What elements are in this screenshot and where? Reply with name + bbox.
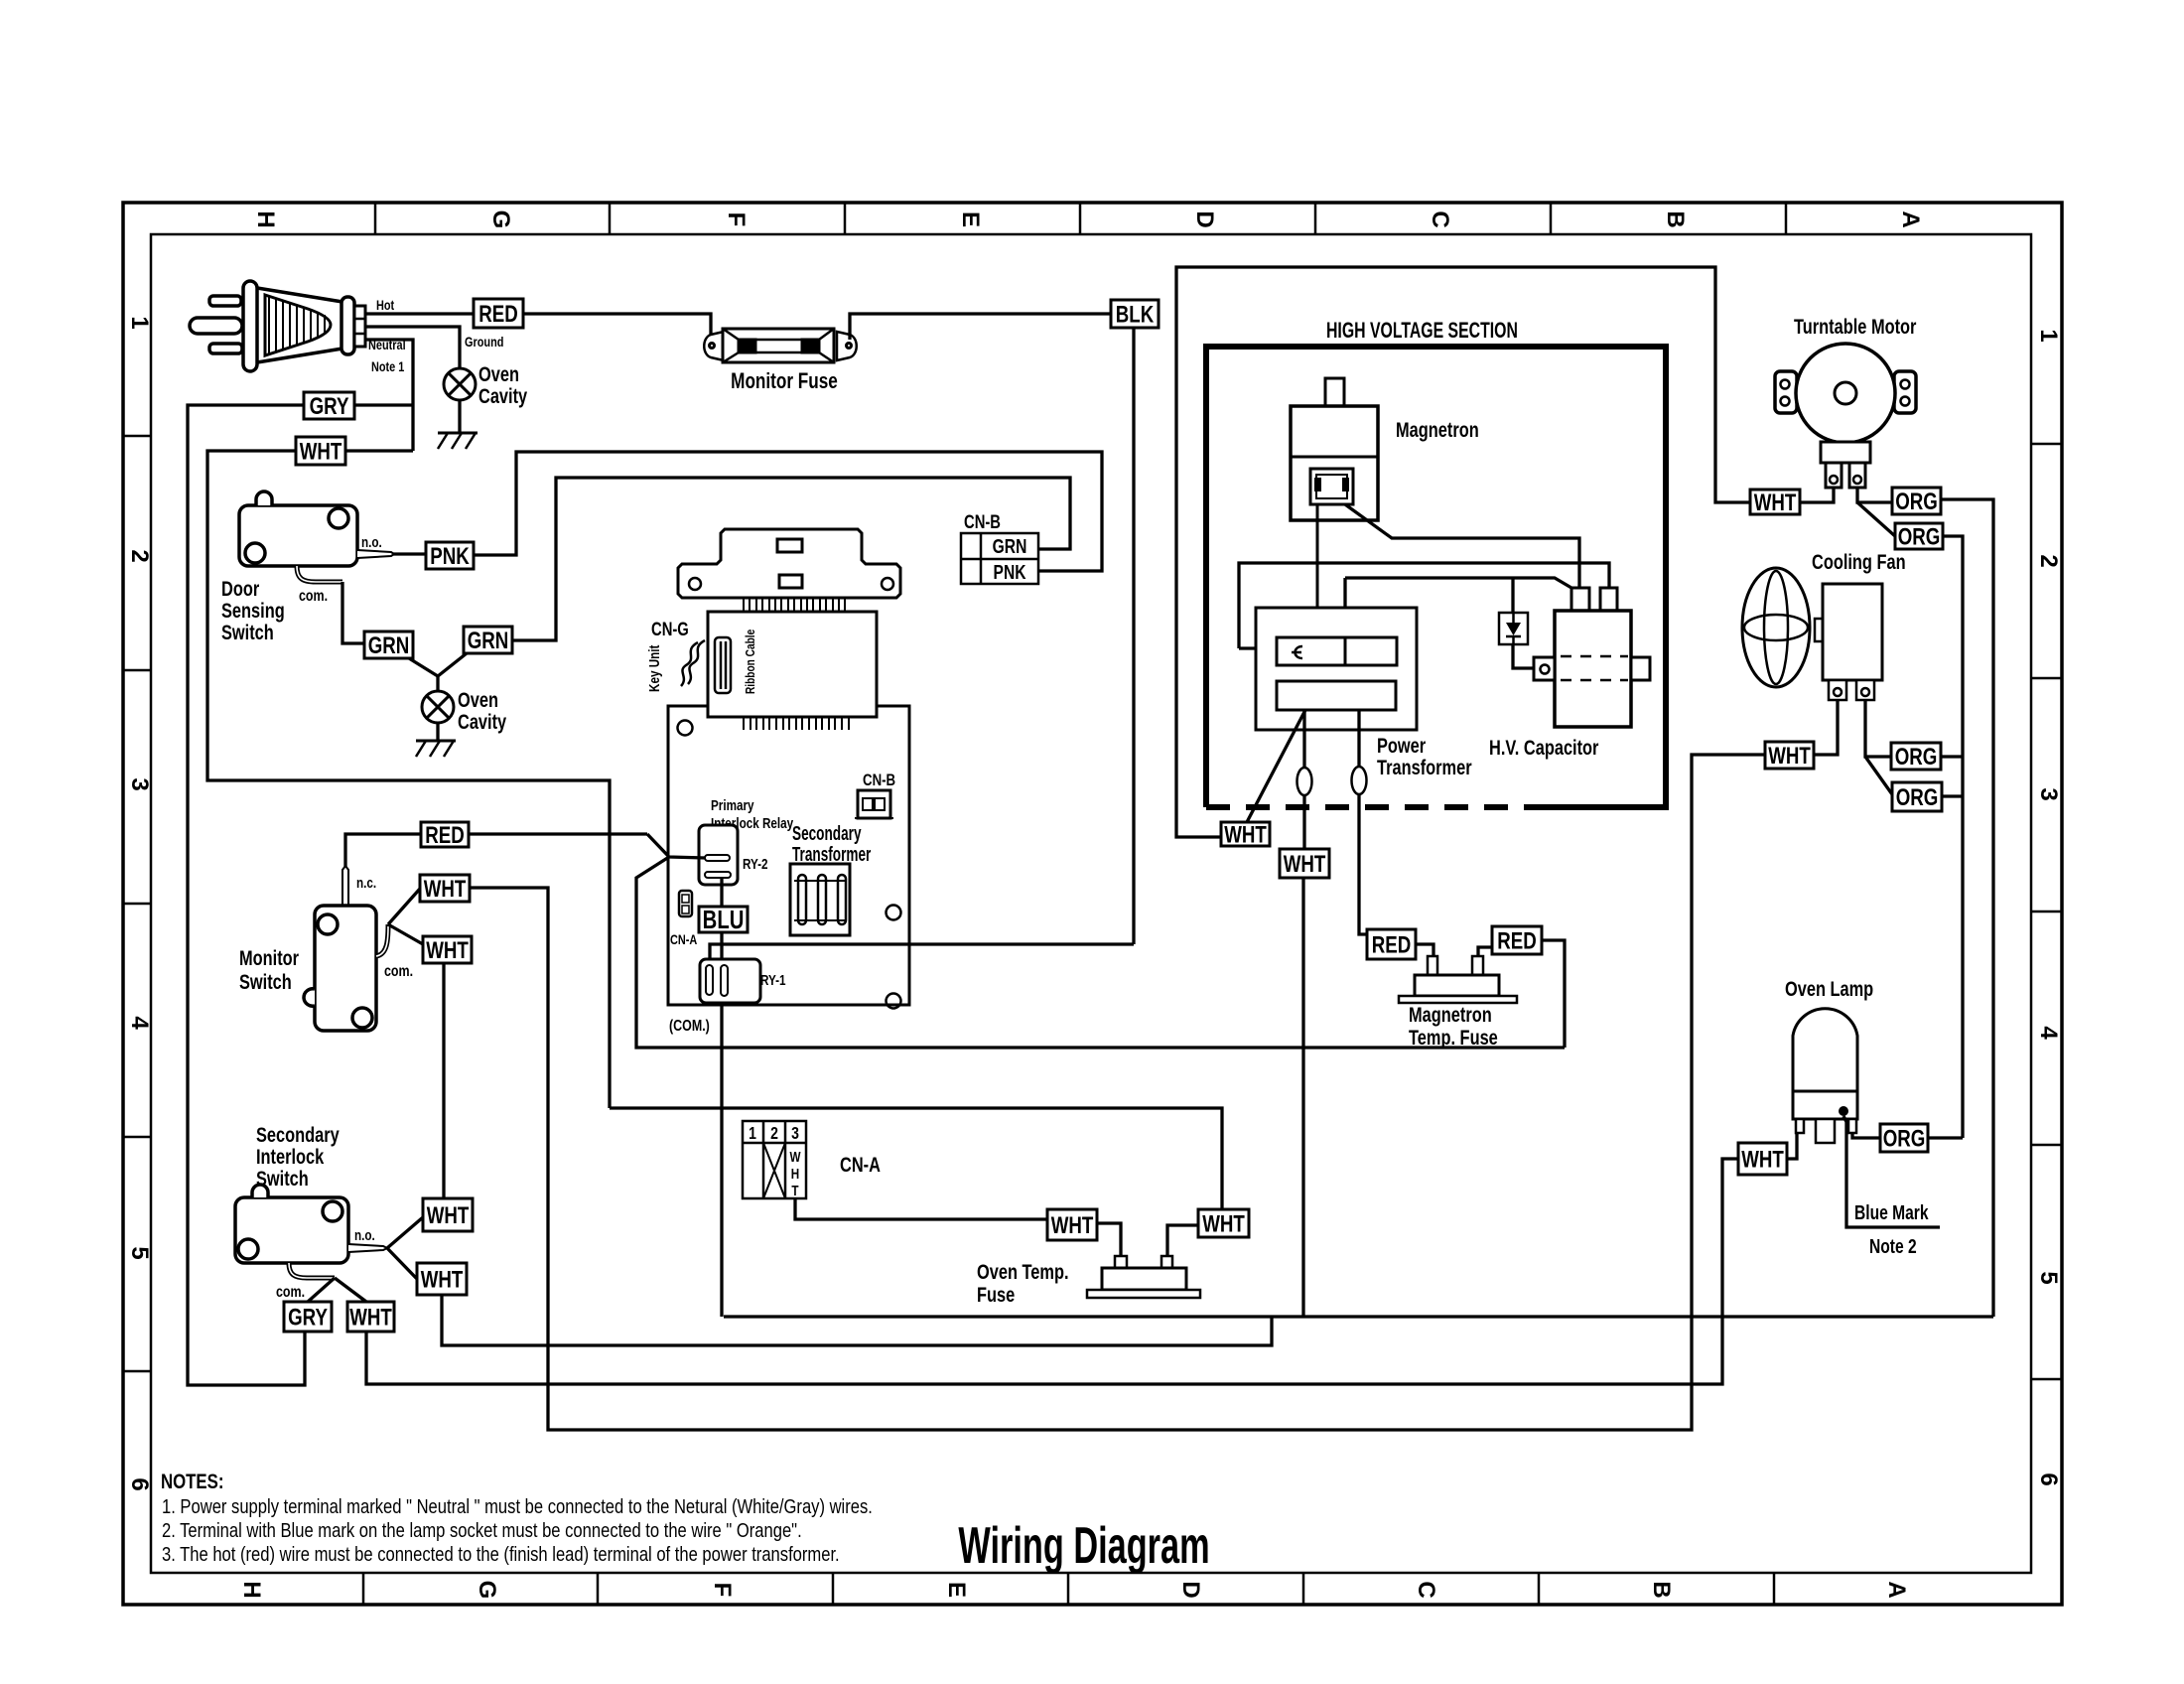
svg-text:WHT: WHT <box>349 1304 392 1331</box>
color label WHT (oven temp fuse left) <box>1047 1209 1097 1240</box>
svg-text:H: H <box>252 210 279 227</box>
svg-text:5: 5 <box>2035 1271 2062 1284</box>
turntable motor <box>1775 344 1916 488</box>
wire lamp 2 to ground <box>436 723 439 741</box>
svg-text:RED: RED <box>1497 927 1537 954</box>
svg-text:RY-1: RY-1 <box>760 972 786 989</box>
svg-text:Oven: Oven <box>478 362 519 385</box>
color label GRN (right) <box>464 627 512 653</box>
svg-text:3. The hot (red) wire must be: 3. The hot (red) wire must be connected … <box>162 1543 840 1566</box>
wire n.o. to WHT upper <box>387 1217 423 1248</box>
wire ORG 3 to bus <box>1941 755 1963 758</box>
svg-text:ORG: ORG <box>1898 523 1941 550</box>
svg-text:CN-A: CN-A <box>840 1153 881 1176</box>
wire BLU down to bus <box>720 932 723 1317</box>
wire motor to ORG 2 diagonal <box>1857 502 1895 536</box>
svg-text:G: G <box>474 1581 500 1600</box>
wire WHT bus down and right <box>207 451 610 1108</box>
wire Y to oven cavity lamp 2 <box>436 676 439 691</box>
wire n.o. to WHT lower <box>387 1248 417 1279</box>
connector pins top comb <box>744 598 845 612</box>
high voltage section box <box>1206 347 1666 807</box>
color label WHT (interlock n.o. upper) <box>423 1198 473 1231</box>
svg-text:1. Power supply terminal mark: 1. Power supply terminal marked " Neutra… <box>162 1495 873 1518</box>
wire com to WHT a <box>388 889 420 924</box>
svg-text:HIGH VOLTAGE SECTION: HIGH VOLTAGE SECTION <box>1326 320 1518 344</box>
wire transformer to WHT diagonal <box>1247 710 1305 822</box>
svg-text:1: 1 <box>126 316 153 329</box>
oven temp fuse <box>1087 1256 1200 1298</box>
wire fuse to RED <box>1478 947 1492 956</box>
svg-text:3: 3 <box>791 1123 799 1143</box>
monitor fuse <box>704 329 857 362</box>
svg-text:com.: com. <box>299 588 328 606</box>
ground symbol 2 <box>416 741 456 757</box>
svg-text:6: 6 <box>2035 1473 2062 1485</box>
svg-text:com.: com. <box>276 1284 305 1302</box>
wire RED to fuse <box>1416 944 1433 956</box>
svg-text:n.c.: n.c. <box>356 875 376 892</box>
svg-text:WHT: WHT <box>300 438 342 465</box>
door switch com lead <box>297 566 342 582</box>
svg-text:BLU: BLU <box>703 906 745 934</box>
svg-text:Secondary: Secondary <box>792 822 862 844</box>
svg-text:GRY: GRY <box>310 393 349 420</box>
svg-text:Interlock: Interlock <box>256 1145 325 1168</box>
svg-text:F: F <box>723 212 750 227</box>
svg-text:WHT: WHT <box>1768 743 1811 770</box>
wire motor to ORG 1 <box>1857 488 1892 502</box>
svg-text:WHT: WHT <box>1754 490 1797 516</box>
svg-text:Oven: Oven <box>458 688 498 711</box>
color label RED (monitor switch) <box>421 822 469 849</box>
color label WHT (transformer secondary) <box>1280 849 1329 878</box>
wire monitor fuse to BLK <box>850 314 1111 340</box>
connector pins bottom comb <box>744 717 849 730</box>
svg-text:GRN: GRN <box>993 535 1027 557</box>
wire transformer WHT down to bus <box>1301 878 1304 1317</box>
wire GRN to CN-B <box>512 478 1070 640</box>
key unit slots <box>777 539 802 588</box>
svg-text:Turntable Motor: Turntable Motor <box>1794 315 1917 338</box>
board mounting holes <box>678 721 901 1009</box>
svg-text:GRY: GRY <box>288 1304 328 1331</box>
wire WHT to fuse left <box>1097 1223 1121 1256</box>
key unit screw holes <box>689 578 893 590</box>
monitor switch com lead <box>376 924 388 956</box>
wire n.o. to PNK <box>393 552 426 555</box>
svg-text:Oven Lamp: Oven Lamp <box>1785 977 1873 1000</box>
svg-text:2. Terminal with Blue mark on: 2. Terminal with Blue mark on the lamp s… <box>162 1519 802 1542</box>
wire transformer lead right to RED <box>1359 710 1367 934</box>
wire com to WHT b <box>388 924 423 944</box>
oven lamp <box>1793 1009 1857 1143</box>
color label ORG (turntable 1) <box>1892 488 1941 514</box>
svg-text:RED: RED <box>478 301 518 328</box>
connector CN-B (GRN/PNK) <box>961 533 1038 584</box>
svg-text:GRN: GRN <box>468 628 509 654</box>
svg-text:PNK: PNK <box>430 543 470 570</box>
HV diode <box>1499 613 1528 644</box>
svg-text:PNK: PNK <box>994 561 1026 583</box>
secondary interlock switch <box>235 1185 348 1263</box>
svg-text:ORG: ORG <box>1895 489 1938 515</box>
wire magnetron filament left to transformer <box>1316 504 1319 648</box>
svg-text:D: D <box>1191 210 1218 227</box>
power supply plug <box>190 281 365 371</box>
svg-text:Monitor Fuse: Monitor Fuse <box>731 369 838 394</box>
color label RED (magnetron fuse right) <box>1492 926 1542 954</box>
monitor switch actuator blade (n.c.) <box>342 866 348 906</box>
svg-text:NOTES:: NOTES: <box>161 1471 223 1493</box>
key unit plate <box>678 529 900 598</box>
color label WHT (oven lamp) <box>1738 1143 1787 1175</box>
wire monitor WHT to cooling fan <box>470 755 1765 1430</box>
wire lamp 1 to ground <box>458 400 461 433</box>
wire transformer WHT to turntable motor WHT <box>1176 267 1750 837</box>
svg-text:Note 1: Note 1 <box>371 359 404 375</box>
oven cavity lamp 1 <box>444 368 476 400</box>
wire ORG to bus <box>1928 1136 1963 1139</box>
svg-text:ORG: ORG <box>1895 744 1938 771</box>
svg-text:CN-G: CN-G <box>651 619 689 639</box>
svg-text:Primary: Primary <box>711 797 754 814</box>
ferrite bead right <box>1352 767 1367 794</box>
svg-text:Cavity: Cavity <box>458 710 507 733</box>
color label WHT (monitor com side) <box>423 936 472 963</box>
control board outline <box>668 706 909 1005</box>
color label RED (magnetron fuse left) <box>1367 929 1416 959</box>
svg-text:E: E <box>943 1582 970 1598</box>
svg-text:BLK: BLK <box>1116 301 1155 328</box>
interlock com lead <box>289 1263 335 1278</box>
color label WHT (interlock com) <box>347 1302 394 1332</box>
svg-text:Transformer: Transformer <box>1377 756 1472 778</box>
wire WHT to motor terminal <box>1800 488 1834 502</box>
svg-text:RED: RED <box>425 822 465 849</box>
wire monitor WHT b down to interlock WHT <box>442 963 445 1198</box>
outer border frame <box>123 203 2062 1605</box>
svg-text:Power: Power <box>1377 734 1427 757</box>
svg-text:GRN: GRN <box>368 632 410 659</box>
color label GRY (interlock com) <box>284 1302 332 1332</box>
svg-text:H: H <box>791 1166 799 1183</box>
svg-text:Cavity: Cavity <box>478 384 528 407</box>
cooling fan motor <box>1815 584 1882 700</box>
wire RED down to common net <box>1542 940 1565 1048</box>
svg-text:WHT: WHT <box>1284 851 1326 878</box>
H.V. capacitor <box>1534 588 1650 727</box>
svg-text:WHT: WHT <box>1224 821 1267 848</box>
svg-text:Magnetron: Magnetron <box>1396 418 1479 441</box>
wire hot feed to RY-1 <box>710 944 1134 959</box>
monitor switch body <box>304 906 376 1031</box>
wire fan to ORG 4 diagonal <box>1865 757 1892 794</box>
svg-text:A: A <box>1883 1581 1910 1598</box>
color label GRY (top) <box>304 392 354 419</box>
wire ORG bus down <box>1943 536 1963 1138</box>
connector CN-B on board (DD) <box>855 790 893 818</box>
svg-text:WHT: WHT <box>1202 1210 1245 1237</box>
svg-text:B: B <box>1662 210 1689 227</box>
wire RED into RY-2 <box>647 834 705 858</box>
svg-text:WHT: WHT <box>421 1266 464 1293</box>
color label GRN (left) <box>364 631 413 658</box>
svg-text:E: E <box>957 211 984 227</box>
svg-text:Hot: Hot <box>376 298 395 314</box>
svg-text:Secondary: Secondary <box>256 1123 340 1146</box>
svg-text:W: W <box>789 1149 800 1166</box>
svg-text:5: 5 <box>126 1246 153 1259</box>
wire monitor RED toward relay <box>469 832 647 835</box>
svg-text:Key Unit: Key Unit <box>646 644 663 692</box>
wire ORG 1 down right side <box>1941 499 1993 1317</box>
color label WHT (transformer primary) <box>1221 821 1270 848</box>
wire HV winding lead <box>1337 578 1345 676</box>
wire RED to monitor switch n.c. <box>345 834 421 867</box>
ferrite bead left <box>1297 768 1312 795</box>
svg-text:B: B <box>1648 1581 1675 1598</box>
svg-text:Note 2: Note 2 <box>1869 1235 1917 1257</box>
wire interlock WHT lower to bus <box>442 1295 1272 1345</box>
svg-text:Transformer: Transformer <box>792 843 872 865</box>
color label ORG (turntable 2) <box>1895 523 1943 550</box>
wire blue mark callout <box>1843 1116 1940 1227</box>
wire oven temp fuse WHT up to neutral net <box>610 1108 1222 1209</box>
color label PNK <box>426 542 474 569</box>
magnetron temp fuse <box>1399 956 1517 1003</box>
wire fan to ORG 3 <box>1865 700 1891 757</box>
svg-text:Ground: Ground <box>465 335 503 351</box>
wire com to GRY <box>308 1278 335 1302</box>
door switch actuator (n.o.) <box>357 550 394 558</box>
wire com to GRN 1 <box>342 582 364 643</box>
connector CN-A (1 2 3) <box>743 1121 806 1198</box>
svg-text:WHT: WHT <box>427 1202 470 1229</box>
color label WHT (turntable motor) <box>1750 490 1800 516</box>
wire magnetron filament right to capacitor <box>1345 504 1579 588</box>
connector CN-G <box>715 637 731 693</box>
svg-text:3: 3 <box>2035 787 2062 800</box>
wire diode anode <box>1511 578 1514 613</box>
wire WHT to neutral <box>345 449 413 452</box>
svg-text:ORG: ORG <box>1883 1125 1926 1152</box>
color label BLU <box>699 906 748 934</box>
svg-text:Temp. Fuse: Temp. Fuse <box>1409 1026 1498 1049</box>
svg-text:Monitor: Monitor <box>239 946 300 969</box>
relay RY-2 <box>699 825 738 885</box>
svg-text:H: H <box>238 1581 265 1598</box>
color label WHT (monitor n.c. side) <box>420 875 470 902</box>
svg-text:com.: com. <box>384 963 413 981</box>
wire lamp to ORG <box>1852 1133 1880 1138</box>
wire Hot plug to RED <box>365 312 474 315</box>
wire RY-2 to BLU <box>720 878 723 907</box>
wire bottom bus (BLU to ORG) <box>724 1315 1993 1318</box>
svg-text:D: D <box>1177 1581 1204 1598</box>
svg-text:CN-A: CN-A <box>670 932 697 948</box>
key unit cable squiggle <box>681 640 705 686</box>
svg-text:C: C <box>1427 210 1453 227</box>
svg-text:RED: RED <box>1372 931 1412 958</box>
svg-text:RY-2: RY-2 <box>743 856 768 873</box>
svg-text:H.V. Capacitor: H.V. Capacitor <box>1489 736 1599 759</box>
svg-text:Fuse: Fuse <box>977 1283 1015 1306</box>
svg-text:CN-B: CN-B <box>964 511 1001 532</box>
svg-text:Sensing: Sensing <box>221 599 285 622</box>
svg-text:ORG: ORG <box>1896 784 1939 811</box>
svg-text:n.o.: n.o. <box>354 1227 375 1244</box>
ground symbol 1 <box>438 433 478 449</box>
svg-text:A: A <box>1897 210 1924 227</box>
svg-text:WHT: WHT <box>1051 1212 1094 1239</box>
svg-text:1: 1 <box>749 1123 756 1143</box>
svg-text:4: 4 <box>126 1016 153 1030</box>
svg-text:Oven Temp.: Oven Temp. <box>977 1260 1069 1283</box>
svg-text:Switch: Switch <box>239 970 292 993</box>
svg-text:WHT: WHT <box>1741 1146 1784 1173</box>
svg-text:CN-B: CN-B <box>863 772 895 790</box>
wire WHT to fuse right <box>1167 1225 1198 1256</box>
cooling fan blades <box>1742 568 1810 687</box>
wire HV lead through primary <box>1344 637 1347 665</box>
svg-text:Switch: Switch <box>221 621 274 643</box>
color label ORG (oven lamp) <box>1880 1124 1928 1152</box>
zone tick marks <box>123 203 2062 1605</box>
svg-text:WHT: WHT <box>426 937 469 964</box>
color label BLK <box>1111 300 1159 328</box>
wire RED to monitor fuse <box>523 314 711 336</box>
wire ORG 4 to bus <box>1942 794 1963 797</box>
color label ORG (cooling fan 1) <box>1891 743 1941 770</box>
svg-text:Blue Mark: Blue Mark <box>1854 1201 1929 1223</box>
wire RY-2 common to magnetron fuse net <box>636 857 1565 1048</box>
svg-text:1: 1 <box>2035 329 2062 342</box>
svg-text:Cooling Fan: Cooling Fan <box>1812 550 1906 573</box>
svg-text:6: 6 <box>126 1477 153 1490</box>
wire CN-A pin3 to oven temp fuse WHT <box>795 1198 1047 1219</box>
power transformer <box>1256 608 1417 730</box>
plug cone hatching <box>269 296 325 354</box>
color label WHT (top) <box>296 437 345 465</box>
svg-text:Ribbon Cable: Ribbon Cable <box>744 629 757 694</box>
svg-text:C: C <box>1413 1581 1439 1598</box>
svg-text:WHT: WHT <box>424 876 467 903</box>
secondary transformer <box>790 864 850 935</box>
ribbon cable box <box>708 612 877 717</box>
svg-text:G: G <box>487 210 514 229</box>
wire diode cathode to capacitor tab <box>1513 644 1534 668</box>
magnetron <box>1291 378 1378 520</box>
svg-text:F: F <box>709 1583 736 1598</box>
color label WHT (interlock n.o. lower) <box>417 1263 467 1295</box>
svg-text:n.o.: n.o. <box>361 534 382 551</box>
svg-text:Wiring Diagram: Wiring Diagram <box>958 1517 1209 1575</box>
wire com to WHT <box>335 1278 366 1302</box>
wire PNK to CN-B <box>474 452 1102 571</box>
connector CN-A on board <box>679 891 692 916</box>
wire WHT to fan terminal <box>1814 700 1838 755</box>
color label WHT (oven temp fuse right) <box>1198 1209 1249 1237</box>
svg-text:T: T <box>791 1183 799 1199</box>
color label WHT (cooling fan) <box>1765 742 1814 769</box>
svg-text:2: 2 <box>2035 554 2062 567</box>
color label RED (hot wire) <box>474 299 523 328</box>
wire GRN Y junction <box>409 653 467 676</box>
wire WHT to lamp terminal <box>1787 1133 1797 1159</box>
wire Ground to oven cavity lamp 1 <box>365 327 460 368</box>
wire Neutral down <box>365 340 413 451</box>
door sensing switch <box>239 491 357 566</box>
svg-text:2: 2 <box>126 549 153 562</box>
color label ORG (cooling fan 2) <box>1892 782 1942 811</box>
wire into transformer primary <box>1239 646 1277 649</box>
svg-text:2: 2 <box>770 1123 778 1143</box>
wire GRY to neutral <box>354 403 413 406</box>
svg-text:3: 3 <box>126 777 153 790</box>
svg-text:Door: Door <box>221 577 260 600</box>
svg-text:(COM.): (COM.) <box>669 1018 710 1036</box>
relay RY-1 <box>700 959 760 1003</box>
interlock actuator blade (n.o.) <box>348 1244 387 1252</box>
oven cavity lamp 2 <box>422 691 454 723</box>
wire interlock WHT to oven lamp WHT <box>366 1159 1738 1384</box>
wire transformer lead left <box>1302 710 1305 849</box>
svg-text:Magnetron: Magnetron <box>1409 1003 1492 1026</box>
wire transformer primary to capacitor right terminal <box>1239 563 1609 648</box>
wire HV to capacitor left terminal <box>1345 578 1571 588</box>
svg-text:4: 4 <box>2035 1026 2062 1040</box>
wire GRY bus down left side <box>188 405 305 1385</box>
inner drawing frame <box>151 234 2031 1573</box>
wire BLK down to relay feed <box>1132 328 1135 944</box>
